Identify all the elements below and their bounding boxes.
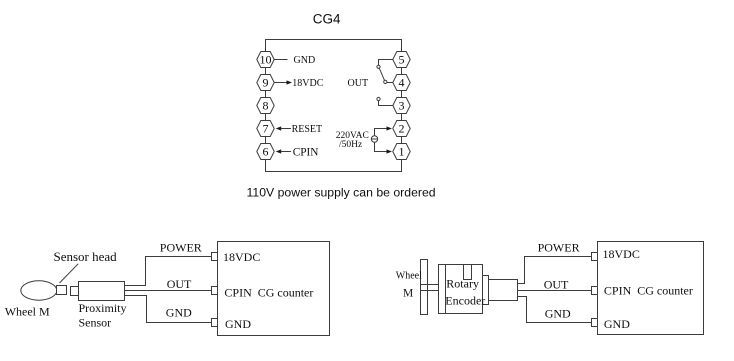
- svg-text:Sensor head: Sensor head: [54, 249, 118, 264]
- svg-text:4: 4: [399, 76, 405, 90]
- svg-text:Wheel: Wheel: [396, 271, 422, 282]
- svg-text:Sensor: Sensor: [79, 316, 112, 330]
- svg-text:CPIN CG counter: CPIN CG counter: [224, 286, 313, 300]
- svg-text:GND: GND: [545, 306, 571, 320]
- svg-text:OUT: OUT: [167, 277, 192, 291]
- svg-text:18VDC: 18VDC: [292, 78, 323, 89]
- svg-text:6: 6: [263, 145, 269, 159]
- svg-text:110V power supply can be order: 110V power supply can be ordered: [247, 185, 436, 199]
- svg-text:9: 9: [263, 76, 269, 90]
- svg-text:3: 3: [399, 99, 405, 113]
- svg-text:10: 10: [260, 53, 272, 67]
- svg-text:Encoder: Encoder: [445, 294, 485, 308]
- svg-text:18VDC: 18VDC: [603, 247, 640, 261]
- svg-text:RESET: RESET: [292, 124, 323, 135]
- svg-text:OUT: OUT: [544, 278, 569, 292]
- svg-text:GND: GND: [604, 317, 630, 331]
- svg-text:CPIN: CPIN: [293, 147, 319, 159]
- svg-text:Rotary: Rotary: [446, 277, 479, 291]
- svg-text:18VDC: 18VDC: [223, 250, 260, 264]
- svg-text:OUT: OUT: [348, 78, 369, 89]
- svg-text:5: 5: [399, 53, 405, 67]
- svg-text:M: M: [403, 288, 413, 300]
- svg-text:GND: GND: [294, 55, 316, 66]
- svg-text:7: 7: [263, 122, 269, 136]
- svg-text:GND: GND: [166, 306, 192, 320]
- svg-text:POWER: POWER: [160, 240, 202, 254]
- svg-text:CPIN CG counter: CPIN CG counter: [604, 284, 693, 298]
- svg-text:Proximity: Proximity: [79, 301, 127, 315]
- svg-text:2: 2: [399, 122, 405, 136]
- svg-text:8: 8: [263, 99, 269, 113]
- svg-text:Wheel M: Wheel M: [5, 304, 50, 318]
- svg-text:CG4: CG4: [313, 12, 341, 27]
- svg-text:/50Hz: /50Hz: [339, 140, 362, 150]
- svg-text:GND: GND: [225, 317, 251, 331]
- svg-text:1: 1: [399, 145, 405, 159]
- svg-text:POWER: POWER: [538, 241, 580, 255]
